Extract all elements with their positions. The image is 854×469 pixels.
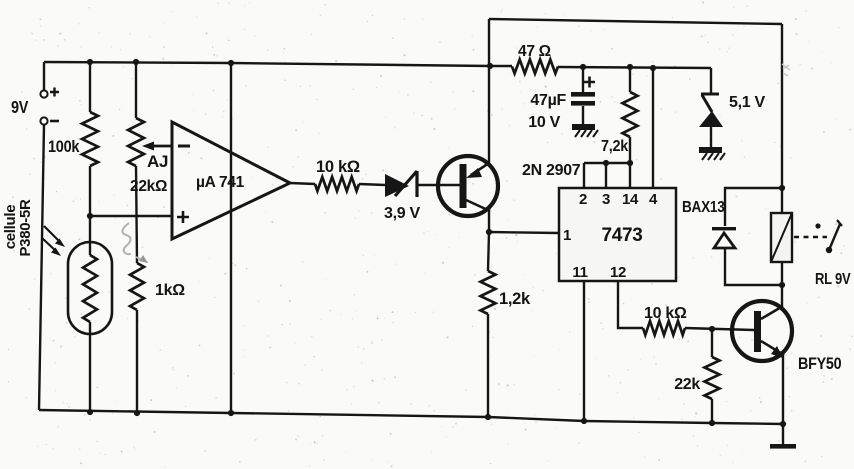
wire pin 2: [583, 163, 585, 188]
node pin 11 bottom rail: [581, 418, 587, 424]
resistor 22k: [705, 357, 720, 399]
light arrow 2: [42, 238, 57, 252]
wire bottom rail: [39, 410, 783, 424]
resistor 10k (op-amp output): [315, 177, 359, 191]
zener diode 5,1V: [701, 94, 719, 112]
transistor Q1 2N2907: [438, 156, 498, 216]
svg-text:1: 1: [563, 227, 571, 244]
photocell cellule P380-5R: [68, 242, 112, 334]
svg-text:47µF: 47µF: [530, 92, 566, 109]
svg-text:100k: 100k: [48, 138, 80, 156]
relay contact (dashed link and switch): [794, 236, 827, 238]
zener diode 3,9V: [385, 174, 409, 197]
node 22k bottom rail: [709, 420, 715, 426]
ground (bottom right): [770, 444, 796, 449]
svg-text:5,1 V: 5,1 V: [729, 94, 765, 111]
node 7,2k top: [627, 64, 633, 70]
ground (5,1V zener): [699, 147, 722, 153]
node BFY50 base / 22k: [709, 326, 715, 332]
wire zener to 2N2907 base: [417, 184, 461, 186]
svg-text:2: 2: [579, 191, 587, 208]
node 47uF top: [580, 64, 586, 70]
wire 1,2k bottom to bottom rail: [487, 314, 489, 417]
svg-text:AJ: AJ: [147, 152, 168, 171]
svg-text:1kΩ: 1kΩ: [155, 282, 185, 299]
smudge artifact: [782, 64, 790, 76]
node A (photocell / + input): [87, 213, 93, 219]
wire 2N2907 emitter vertical from top box corner: [488, 19, 490, 165]
node pin 4 supply: [650, 65, 656, 71]
wire 22k bottom to rail: [711, 399, 713, 423]
wire pin 3: [605, 163, 607, 188]
svg-text:14: 14: [622, 191, 639, 208]
wire op-amp supply through-line: [230, 63, 232, 413]
node op-amp supply top rail: [228, 60, 234, 66]
node BAX13 top: [779, 185, 785, 191]
resistor 10k (pin 12 to BFY50): [643, 321, 685, 335]
wire 100k/photocell branch from top rail: [89, 62, 91, 112]
svg-text:3: 3: [602, 191, 610, 208]
node relay bottom / collector: [779, 282, 785, 288]
wire op-amp output to 10k: [290, 183, 315, 184]
svg-text:BAX13: BAX13: [682, 199, 725, 216]
svg-text:22kΩ: 22kΩ: [130, 178, 167, 195]
transistor Q2 BFY50: [732, 301, 792, 361]
wire pot bottom to 1k resistor to bottom rail: [136, 166, 137, 263]
wire 5,1V zener drop from rail: [710, 68, 712, 95]
wire relay bottom to BFY50 collector junction: [781, 262, 783, 309]
resistor 1,2k: [481, 271, 496, 314]
wire 10k to BFY50 base: [685, 328, 754, 330]
svg-text:RL 9V: RL 9V: [815, 271, 851, 288]
node emitter bottom rail: [780, 421, 786, 427]
wire top rail of right box: [489, 19, 782, 24]
svg-text:10 kΩ: 10 kΩ: [644, 305, 687, 322]
svg-text:P380-5R: P380-5R: [17, 199, 34, 257]
svg-text:10 V: 10 V: [528, 114, 560, 131]
wire BAX13 branch bottom: [725, 248, 782, 285]
resistor 7,2k: [623, 92, 638, 137]
light arrow 1: [44, 226, 61, 243]
ground (47uF): [572, 124, 595, 130]
node pin 3 bus: [603, 160, 609, 166]
wire 2N2907 collector down to junction node: [488, 208, 490, 232]
svg-text:3,9 V: 3,9 V: [384, 205, 420, 222]
svg-text:µA 741: µA 741: [196, 174, 245, 191]
node 1k bottom rail: [134, 410, 140, 416]
svg-text:9V: 9V: [11, 98, 28, 118]
resistor 47 ohm: [512, 60, 558, 74]
svg-text:47 Ω: 47 Ω: [518, 43, 551, 60]
wire pins 2-3-14 bus: [584, 162, 630, 164]
wire BFY50 emitter down to bottom rail and ground: [782, 353, 784, 444]
svg-text:4: 4: [649, 191, 658, 208]
wire + input (photocell junction to op-amp): [90, 215, 172, 217]
wire 47uF cap bottom to ground: [582, 106, 584, 124]
wire left vertical: top rail to + terminal: [43, 62, 45, 90]
node pot top rail: [133, 59, 139, 65]
potentiometer AJ 22k: [128, 118, 144, 166]
svg-text:22k: 22k: [674, 376, 700, 393]
wire collector node down to 1,2k: [488, 232, 489, 271]
svg-text:10 kΩ: 10 kΩ: [316, 158, 360, 176]
pencil annotation squiggle: [122, 223, 131, 254]
wire wiper to op-amp inverting input: [146, 145, 172, 147]
wire 7,2k bottom to pin14 bus: [629, 137, 631, 188]
wire 47uF cap top: [582, 67, 584, 92]
wire BAX13 branch top: [725, 188, 782, 226]
wire collector node to 7473 pin 1: [489, 232, 559, 233]
resistor 100k: [82, 112, 98, 166]
resistor 1k: [130, 263, 144, 310]
node photocell bottom rail: [87, 409, 93, 415]
node 100k top rail: [87, 59, 93, 65]
node +9V / 2N2907 emitter: [487, 63, 493, 69]
node 1,2k bottom rail: [485, 414, 491, 420]
svg-text:2N 2907: 2N 2907: [522, 162, 581, 179]
wire +9V distribution with 47 ohm: [490, 65, 512, 67]
svg-text:BFY50: BFY50: [798, 355, 841, 373]
diode BAX13: [712, 227, 736, 230]
svg-text:1,2k: 1,2k: [499, 290, 531, 308]
wire 22k top tap: [711, 329, 713, 357]
op-amp U1 uA741: [172, 122, 290, 239]
wire 10k to zener D1: [359, 184, 385, 185]
relay coil RL 9V: [771, 213, 792, 262]
svg-text:7,2k: 7,2k: [601, 137, 629, 155]
wire potentiometer branch from top rail: [135, 62, 137, 118]
node pin 14 bus: [627, 160, 633, 166]
wire left vertical: - terminal to bottom rail: [39, 125, 44, 410]
wire pin 4 to +9V rail: [652, 68, 654, 188]
wire pin 12 down and right to 10k: [618, 281, 643, 328]
wire pin 11 to bottom rail: [583, 281, 585, 421]
wire 7,2k top: [629, 67, 631, 92]
node B (collector / pin 1): [486, 229, 492, 235]
IC U2 7473: [559, 188, 676, 281]
node op-amp supply bottom rail: [228, 410, 234, 416]
svg-text:12: 12: [610, 264, 626, 281]
capacitor C1 47uF: [584, 77, 595, 88]
wire right vertical rail (+9V to relay): [781, 24, 783, 213]
wire top rail left section: [44, 62, 490, 66]
svg-text:11: 11: [572, 264, 587, 281]
battery terminals 9V: [40, 90, 47, 97]
svg-text:7473: 7473: [601, 225, 642, 246]
